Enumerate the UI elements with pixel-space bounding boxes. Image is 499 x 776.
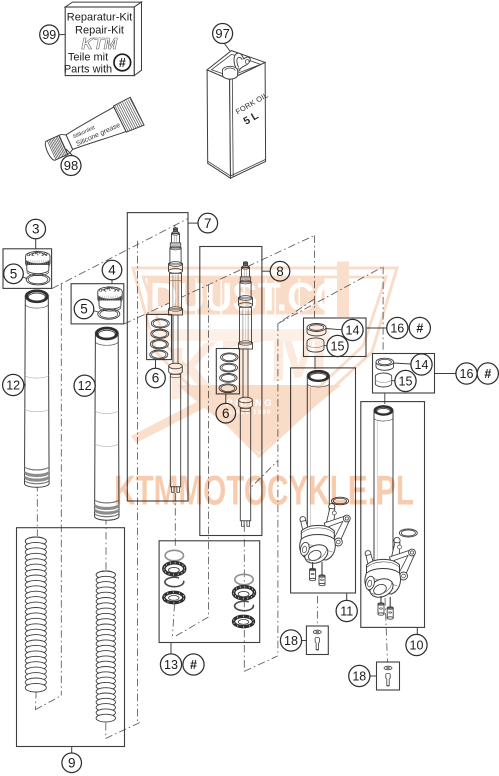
callout 18 left	[302, 640, 307, 642]
leg assembly box 10	[361, 402, 425, 628]
wire phantom diagonal box A to box 7	[52, 219, 188, 289]
spring right	[96, 571, 115, 579]
wire axis seal col left tail	[173, 604, 175, 636]
wire phantom diagonal box B to peak	[124, 235, 315, 324]
svg-text:4: 4	[108, 263, 116, 278]
repair kit box 99	[64, 2, 142, 76]
pinch screw 10 a	[380, 596, 382, 604]
wire kit to tube 10	[384, 393, 386, 404]
seal set left column	[165, 550, 183, 560]
ring 14 left	[307, 324, 326, 332]
svg-text:6: 6	[152, 371, 160, 386]
ring 14 right	[376, 358, 394, 366]
o-ring kit box 6 left	[147, 314, 172, 359]
wire axis below left spring	[34, 691, 37, 710]
svg-text:3: 3	[32, 222, 40, 237]
callout 6 right	[225, 394, 227, 404]
wire phantom vertical V7	[208, 285, 210, 617]
kit box for cap 4	[71, 284, 124, 324]
wire axis damper 7 tick	[174, 225, 176, 233]
axle clamp 11	[299, 503, 350, 566]
pinch screw 11 a	[312, 562, 314, 570]
screw kit box 18 left	[306, 626, 328, 655]
svg-text:Reparatur-Kit: Reparatur-Kit	[67, 12, 132, 24]
svg-text:14: 14	[346, 323, 360, 337]
callout 12 left	[24, 384, 27, 386]
svg-text:KTM: KTM	[81, 36, 117, 53]
svg-text:16: 16	[390, 321, 404, 335]
seal set right column	[235, 574, 253, 584]
wire axis below right spring	[105, 723, 107, 739]
wire phantom vertical V6	[137, 241, 139, 723]
callout 98	[66, 149, 73, 156]
callout 16 right with #	[435, 373, 456, 375]
wire phantom leg ghost left edge	[243, 494, 245, 671]
inner tube leg 11	[307, 371, 329, 530]
callout 16 left with #	[366, 327, 387, 329]
wire phantom cut corner S1	[35, 696, 61, 710]
svg-text:5: 5	[10, 267, 18, 282]
bushing 15 left	[307, 338, 324, 352]
callout 11	[346, 593, 348, 601]
svg-text:since 1999: since 1999	[229, 409, 272, 416]
watermark DUUST.CO band	[148, 262, 350, 320]
svg-text:Repair-Kit: Repair-Kit	[75, 25, 124, 37]
wire axis damper7 to seal kit	[174, 493, 176, 548]
wire axis tube12 right to spring	[105, 517, 107, 570]
svg-text:#: #	[190, 658, 197, 672]
svg-text:11: 11	[340, 604, 353, 618]
svg-text:KTMMOTOCYKLE.PL: KTMMOTOCYKLE.PL	[114, 467, 414, 514]
wire phantom leg ghost top cut	[244, 461, 277, 494]
wire phantom vertical into box 14/15 right	[382, 267, 384, 353]
o-ring leg 11	[331, 497, 348, 505]
svg-text:12: 12	[78, 379, 92, 393]
callout 7	[188, 222, 198, 224]
wire phantom vertical left V1	[60, 283, 62, 696]
fork tube 12 left	[25, 290, 50, 487]
svg-text:12: 12	[6, 378, 20, 392]
fork tube 12 right	[95, 327, 119, 520]
callout 8	[262, 270, 270, 272]
o-ring kit box 6 right	[216, 349, 239, 394]
fork oil can 97	[207, 51, 270, 179]
bushing kit box 14/15 left	[304, 318, 367, 357]
pinch screw 10 b	[389, 597, 391, 608]
svg-text:DUUST.CO: DUUST.CO	[150, 276, 344, 320]
callout 97	[224, 43, 230, 51]
wire axis clamp 10 to screw box	[385, 598, 388, 662]
svg-text:#: #	[416, 321, 423, 335]
spring box 9	[17, 528, 125, 747]
assembly box 7	[127, 213, 188, 501]
wire phantom V7 bottom cut	[176, 617, 209, 636]
svg-text:9: 9	[68, 756, 76, 771]
svg-text:Parts with: Parts with	[64, 64, 112, 76]
o-ring leg 10	[399, 529, 417, 537]
svg-text:97: 97	[215, 26, 229, 41]
svg-text:14: 14	[415, 358, 429, 372]
bushing 15 right	[375, 373, 391, 387]
silicone grease tube 98	[41, 97, 144, 166]
callout 14 left	[326, 329, 342, 330]
svg-text:Teile mit: Teile mit	[68, 52, 108, 64]
svg-text:98: 98	[64, 158, 78, 173]
damper cartridge 8	[243, 263, 247, 267]
svg-text:15: 15	[399, 374, 413, 388]
svg-text:16: 16	[460, 367, 474, 381]
svg-text:99: 99	[42, 28, 56, 42]
wire kit to tube 11	[314, 357, 316, 370]
kit box for cap 3	[3, 249, 52, 289]
callout 5 left	[22, 277, 28, 279]
wire phantom diagonal to box 14/15 right	[278, 267, 383, 324]
callout 12 right	[94, 385, 97, 387]
axle clamp 10	[364, 537, 415, 600]
callout 18 right	[370, 675, 377, 677]
o-ring 5 left	[26, 274, 50, 285]
callout 3	[35, 239, 37, 249]
svg-text:18: 18	[284, 634, 298, 648]
callout 5 right	[93, 311, 98, 313]
svg-text:#: #	[484, 367, 491, 381]
svg-text:15: 15	[331, 339, 345, 353]
callout 99	[59, 34, 65, 36]
svg-text:18: 18	[352, 669, 366, 683]
screw kit box 18 right	[377, 662, 400, 690]
svg-text:#: #	[119, 56, 126, 70]
svg-text:13: 13	[164, 658, 178, 672]
fork cap 3	[26, 251, 50, 260]
callout 15 right	[392, 380, 396, 382]
o-ring 5 right	[98, 309, 120, 319]
callout 9	[71, 747, 73, 754]
assembly box 8	[200, 247, 262, 536]
wire axis tube12 left to spring	[36, 484, 38, 536]
leg assembly box 11	[291, 368, 356, 593]
wire phantom cut corner S2	[106, 723, 141, 739]
callout 14 right	[394, 363, 412, 364]
callout 10	[416, 627, 418, 634]
inner tube leg 10	[374, 406, 393, 563]
svg-text:7: 7	[204, 216, 212, 231]
pinch screw 11 b	[321, 562, 323, 576]
watermark shield logo	[131, 268, 397, 456]
damper cartridge 7	[173, 229, 177, 233]
callout 6 left	[155, 360, 157, 369]
wire axis clamp 11 to screw box	[316, 596, 318, 626]
callout 4	[111, 280, 113, 284]
wire phantom vertical into box 14/15 left	[314, 235, 316, 318]
bushing kit box 14/15 right	[373, 354, 435, 394]
svg-text:10: 10	[410, 638, 424, 652]
seal kit box 13	[159, 541, 260, 643]
spring left	[25, 537, 46, 546]
svg-text:5: 5	[80, 302, 88, 317]
wire phantom leg ghost right edge	[277, 324, 279, 656]
wire phantom branch to leg ghost	[278, 299, 315, 324]
wire phantom leg ghost bottom cut	[244, 656, 277, 671]
svg-text:RIDING: RIDING	[226, 398, 274, 409]
callout 15 left	[324, 345, 327, 347]
callout 13 with #	[170, 643, 172, 655]
fork cap 4	[98, 287, 122, 296]
